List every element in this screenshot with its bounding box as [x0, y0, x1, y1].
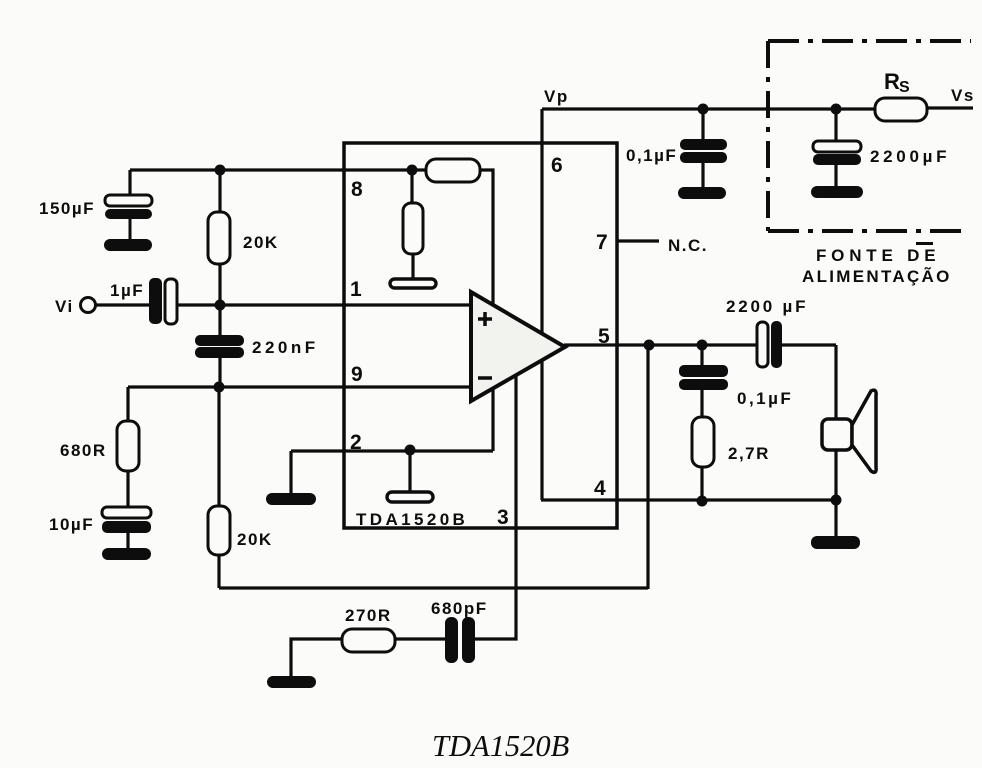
resistor internal vertical — [403, 203, 423, 254]
wire Vp to pin4 vertical — [540, 109, 543, 500]
svg-text:0,1µF: 0,1µF — [626, 146, 677, 165]
wire pin2 — [291, 449, 493, 452]
junction pin9 wire — [214, 382, 225, 393]
capacitor 2200uF output — [757, 321, 782, 368]
wire output after cap — [782, 343, 836, 346]
capacitor 0.1uF supply bypass — [680, 139, 727, 163]
resistor 20K upper — [208, 212, 230, 264]
wire 680pF to 270R — [395, 637, 445, 640]
resistor 20K lower — [208, 506, 230, 555]
wire 20K bottom stem — [218, 263, 221, 306]
power supply dash-dot box bottom edge — [768, 229, 968, 233]
wire 2200uF supply stems — [834, 109, 837, 187]
svg-text:7: 7 — [596, 231, 608, 254]
junction supply 2200uF — [831, 104, 842, 115]
junction bottom speaker — [831, 495, 842, 506]
wire 220nF bottom stem — [218, 356, 221, 388]
wire NC stub — [617, 239, 659, 242]
wire internal resistor top stem — [410, 170, 413, 203]
svg-text:2200 µF: 2200 µF — [726, 297, 808, 316]
svg-text:3: 3 — [497, 506, 509, 529]
resistor 680R — [117, 421, 139, 471]
junction Vp 0.1uF — [698, 104, 709, 115]
svg-text:680R: 680R — [60, 441, 107, 460]
svg-text:10µF: 10µF — [49, 515, 94, 534]
wire 0.1uF zobel to 2.7R — [700, 390, 703, 418]
svg-text:TDA1520B: TDA1520B — [356, 510, 468, 529]
svg-text:20K: 20K — [237, 530, 273, 549]
wire Vs — [927, 106, 973, 109]
resistor 270R — [342, 629, 395, 652]
wire 20K top stem — [218, 170, 221, 213]
svg-text:FONTE DE: FONTE DE — [816, 246, 940, 265]
wire 20K2 bottom stem — [217, 554, 220, 588]
wire 10uF ground stem — [126, 533, 129, 549]
svg-text:Vi: Vi — [55, 297, 74, 316]
svg-text:9: 9 — [351, 363, 363, 386]
node plate under pin2 junction — [387, 492, 433, 502]
svg-text:8: 8 — [351, 178, 363, 201]
wire speaker bottom stem — [834, 450, 837, 500]
power supply dash-dot box top edge — [768, 39, 971, 43]
junction pin2 — [405, 445, 416, 456]
svg-text:5: 5 — [598, 325, 610, 348]
wire 0.1uF zobel top stem — [700, 345, 703, 366]
wire pin2 ground stem — [289, 451, 292, 494]
capacitor 150uF electrolytic — [105, 195, 152, 239]
svg-text:2,7R: 2,7R — [728, 444, 770, 463]
ground pin2 — [266, 493, 316, 505]
junction top bus / 20K — [215, 165, 226, 176]
wire pin1 input right — [176, 303, 471, 306]
svg-text:1µF: 1µF — [110, 281, 144, 300]
capacitor 0.1uF zobel — [679, 365, 728, 390]
svg-text:680pF: 680pF — [431, 599, 488, 618]
capacitor 2200uF supply electrolytic — [813, 141, 861, 165]
wire 150uF stem — [128, 170, 131, 196]
wire 2.7R bottom stem — [700, 467, 703, 502]
wire 220nF top stem — [218, 305, 221, 337]
wire 680R top stem — [126, 387, 129, 421]
svg-text:270R: 270R — [345, 606, 392, 625]
wire pin1 input left — [95, 303, 150, 306]
wire node B2 stem — [408, 450, 411, 492]
svg-text:220nF: 220nF — [252, 338, 319, 357]
ground under 10uF — [102, 548, 151, 560]
svg-text:6: 6 — [551, 154, 563, 177]
resistor internal horizontal (feedback) — [426, 159, 480, 182]
wire speaker top stem — [834, 345, 837, 419]
svg-text:Vp: Vp — [544, 87, 569, 106]
speaker LS1 — [822, 390, 876, 472]
junction output zobel — [697, 340, 708, 351]
svg-text:TDA1520B: TDA1520B — [432, 729, 569, 763]
wire 270R left to ground — [291, 639, 342, 676]
wire output pin5 — [564, 343, 757, 346]
wire pin9 — [128, 385, 471, 388]
terminal Vi — [81, 298, 96, 313]
svg-text:20K: 20K — [243, 233, 279, 252]
wire speaker ground stem — [834, 500, 837, 537]
power supply dash-dot box left edge — [766, 41, 770, 231]
node plate under internal resistor — [390, 279, 436, 288]
wire internal resistor bottom stem — [411, 254, 414, 280]
junction output feedback — [644, 340, 655, 351]
wire feedback resistor vertical — [480, 170, 493, 451]
wire 0.1uF supply stems — [701, 109, 704, 188]
op-amp U1 — [471, 292, 565, 401]
wire pin3 vertical and 680pF — [475, 374, 516, 639]
svg-text:N.C.: N.C. — [668, 236, 708, 255]
svg-text:2: 2 — [350, 431, 362, 454]
ground under 0.1uF supply — [678, 187, 726, 199]
junction internal pin8 — [407, 165, 418, 176]
ground under 2200uF supply — [811, 186, 863, 198]
ground under speaker — [811, 536, 860, 549]
wire bottom net pin4 — [541, 498, 836, 501]
IC box TDA1520B — [344, 143, 617, 528]
capacitor 220nF — [195, 335, 244, 358]
svg-text:2200µF: 2200µF — [870, 147, 950, 166]
wire 680R to 10uF — [126, 471, 129, 507]
svg-text:S: S — [899, 79, 911, 96]
capacitor 10uF electrolytic — [102, 507, 151, 533]
capacitor 680pF — [445, 617, 475, 663]
wire top bus pin8 — [130, 168, 426, 171]
svg-text:4: 4 — [594, 477, 606, 500]
resistor 2,7R — [692, 417, 714, 467]
svg-text:Vs: Vs — [951, 86, 975, 105]
ground under 150uF — [104, 239, 152, 251]
ground under 270R — [267, 676, 316, 688]
wire feedback bottom run — [219, 586, 648, 589]
wire Vp rail — [542, 107, 875, 110]
junction pin1 wire — [215, 300, 226, 311]
resistor Rs — [875, 98, 927, 121]
label DE overline mark — [916, 242, 933, 245]
capacitor 1uF input — [149, 278, 177, 324]
svg-text:1: 1 — [350, 278, 362, 301]
wire feedback vertical — [646, 345, 649, 589]
svg-text:150µF: 150µF — [39, 199, 95, 218]
wire 20K2 top stem — [217, 387, 220, 507]
svg-text:0,1µF: 0,1µF — [737, 389, 793, 408]
junction bottom 2.7R — [697, 496, 708, 507]
svg-text:ALIMENTAÇÃO: ALIMENTAÇÃO — [802, 266, 952, 286]
